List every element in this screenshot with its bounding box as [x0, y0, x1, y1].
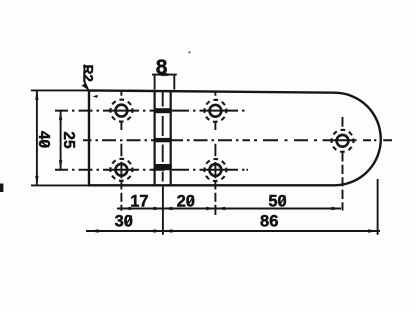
barrel knuckle joint band middle	[154, 138, 172, 142]
dimension 8 extension line right	[173, 74, 175, 90]
small speck	[188, 51, 190, 53]
hole H1 drilled circle	[116, 105, 128, 117]
label 25	[60, 131, 77, 149]
dim 17 arrow left	[121, 207, 130, 210]
hole H2 drilled circle	[210, 105, 222, 117]
leader line for R2	[84, 65, 88, 90]
svg-text:50: 50	[268, 192, 286, 210]
dimension 8 arrow right	[165, 73, 175, 76]
dimension 40 arrow top	[35, 90, 38, 100]
svg-text:8: 8	[156, 56, 168, 79]
top hole-row centerline	[55, 110, 245, 112]
label R2	[80, 65, 95, 82]
barrel right edge line	[170, 91, 172, 186]
dimension 40 line	[36, 90, 38, 185]
stray mark near corner	[93, 95, 98, 98]
hole H3 countersink dashed circle	[108, 157, 134, 183]
extension line from plate right end down	[377, 179, 379, 235]
barrel knuckle joint band top	[154, 108, 172, 113]
hole H4 drilled circle	[210, 164, 222, 176]
hole H1 vertical centerline (top-left)	[120, 92, 122, 131]
dimension 40 extension line top	[31, 89, 88, 91]
dim 30 arrow left	[89, 229, 99, 232]
label 30 zero slash	[126, 216, 132, 226]
hinge plate outline	[89, 90, 381, 185]
hole H4 vertical centerline + extension (bottom-middle)	[214, 144, 216, 215]
hole H5 drilled circle	[337, 135, 349, 147]
dimension 8 arrow left	[155, 73, 165, 76]
dim 50 arrow right	[332, 207, 342, 210]
hole H2 countersink dashed circle	[202, 98, 228, 124]
dimension 40 extension line bottom	[31, 184, 88, 186]
svg-text:R2: R2	[80, 65, 95, 82]
scan edge blob	[0, 184, 3, 193]
dimension 25 arrow bottom	[59, 160, 62, 170]
dimension 8 extension line left	[154, 74, 156, 90]
svg-text:30: 30	[115, 212, 133, 230]
svg-text:20: 20	[177, 193, 195, 211]
hole H5 vertical centerline + extension (right)	[342, 117, 344, 211]
hole H2 vertical centerline (top-middle)	[214, 92, 216, 131]
barrel left edge line	[154, 91, 156, 186]
dim 86 arrow right	[368, 229, 378, 232]
dimension 25 arrow top	[59, 111, 62, 121]
svg-text:17: 17	[130, 193, 148, 211]
hole H4 countersink dashed circle	[202, 157, 228, 183]
label 20 zero slash	[188, 196, 194, 206]
dimension 8 line	[152, 74, 177, 76]
svg-text:86: 86	[260, 213, 278, 231]
hole H3 drilled circle	[116, 164, 128, 176]
hole H1 countersink dashed circle	[108, 98, 134, 124]
hole H5 countersink dashed circle	[329, 128, 355, 154]
dim 20/50 bowtie arrows	[206, 207, 225, 210]
dimension line 17/20/50	[117, 208, 341, 210]
barrel pin centerline (vertical, segmented)	[162, 92, 164, 182]
bottom hole-row centerline	[55, 169, 248, 171]
dim 30/86 bowtie arrows	[153, 229, 172, 232]
barrel knuckle joint band bottom	[154, 164, 172, 170]
svg-text:25: 25	[60, 131, 77, 149]
main horizontal centerline	[83, 139, 392, 141]
dimension 25 line	[60, 111, 62, 170]
hole H3 vertical centerline + extension (bottom-left)	[120, 144, 122, 211]
label 50 zero slash	[279, 196, 285, 206]
dimension 40 arrow bottom	[35, 176, 38, 186]
dimension line 30/86	[86, 230, 380, 232]
R2 leader arrowhead	[82, 84, 89, 91]
label 40	[35, 131, 52, 148]
svg-text:40: 40	[35, 131, 52, 148]
dim 17/20 bowtie arrows	[153, 207, 172, 210]
extension line from barrel center down	[162, 187, 164, 235]
